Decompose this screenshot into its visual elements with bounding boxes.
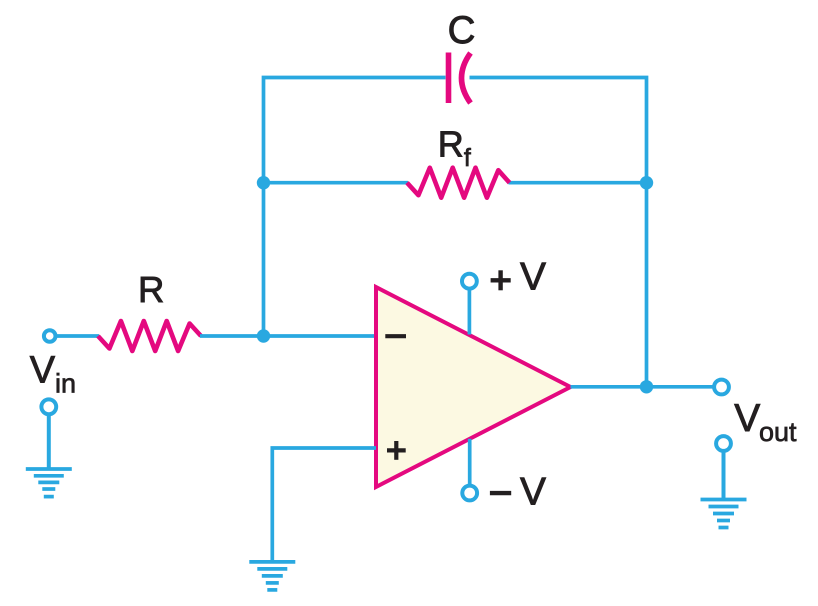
svg-text:R: R <box>138 269 164 310</box>
wire +V to op-amp top edge <box>468 289 472 335</box>
junction node at output <box>640 380 653 393</box>
op-amp inverting input minus symbol <box>385 334 406 338</box>
terminal -V open circle <box>462 486 477 501</box>
terminal Vin open circle <box>44 330 56 342</box>
capacitor C <box>449 53 471 104</box>
wire top feedback (left segment to capacitor) <box>264 78 446 337</box>
terminal +V open circle <box>462 274 477 289</box>
resistor R <box>98 321 201 351</box>
svg-text:f: f <box>464 144 471 172</box>
wire Vin ground stem <box>47 415 51 468</box>
wire -V from op-amp bottom edge <box>468 439 472 485</box>
terminal Vin ground open circle <box>41 399 56 414</box>
svg-text:V: V <box>734 397 760 440</box>
svg-text:V: V <box>520 471 546 514</box>
wire resistor R to inverting input <box>200 334 376 338</box>
label Vin <box>30 349 76 398</box>
svg-text:out: out <box>759 417 797 447</box>
ground (below non-inverting input) <box>249 562 295 590</box>
op-amp U1 <box>376 287 571 487</box>
svg-text:V: V <box>30 349 56 391</box>
wire Vout ground stem <box>722 451 726 498</box>
label - V <box>490 471 546 514</box>
wire Rf row right segment <box>509 181 647 185</box>
label Rf <box>438 123 471 172</box>
label Vout <box>734 397 797 447</box>
junction node at inverting input <box>257 329 270 342</box>
op-amp non-inverting input plus symbol <box>387 441 406 460</box>
svg-text:C: C <box>448 9 476 52</box>
label + V <box>491 255 546 298</box>
svg-text:R: R <box>438 123 464 164</box>
junction node at right rail / Rf row <box>640 176 653 189</box>
terminal Vout open circle <box>714 380 729 395</box>
wire top feedback (capacitor to right rail) <box>470 78 647 387</box>
wire Rf row left segment <box>264 181 409 185</box>
wire output <box>571 385 714 389</box>
wire non-inverting input to ground <box>272 448 376 560</box>
ground (below Vout) <box>701 500 747 528</box>
resistor Rf <box>407 168 510 198</box>
wire Vin to resistor R <box>57 334 99 338</box>
junction node at left rail / Rf row <box>257 176 270 189</box>
svg-text:V: V <box>520 255 546 298</box>
svg-text:in: in <box>55 369 76 399</box>
terminal Vout ground open circle <box>716 436 731 451</box>
ground (below Vin) <box>26 469 72 497</box>
